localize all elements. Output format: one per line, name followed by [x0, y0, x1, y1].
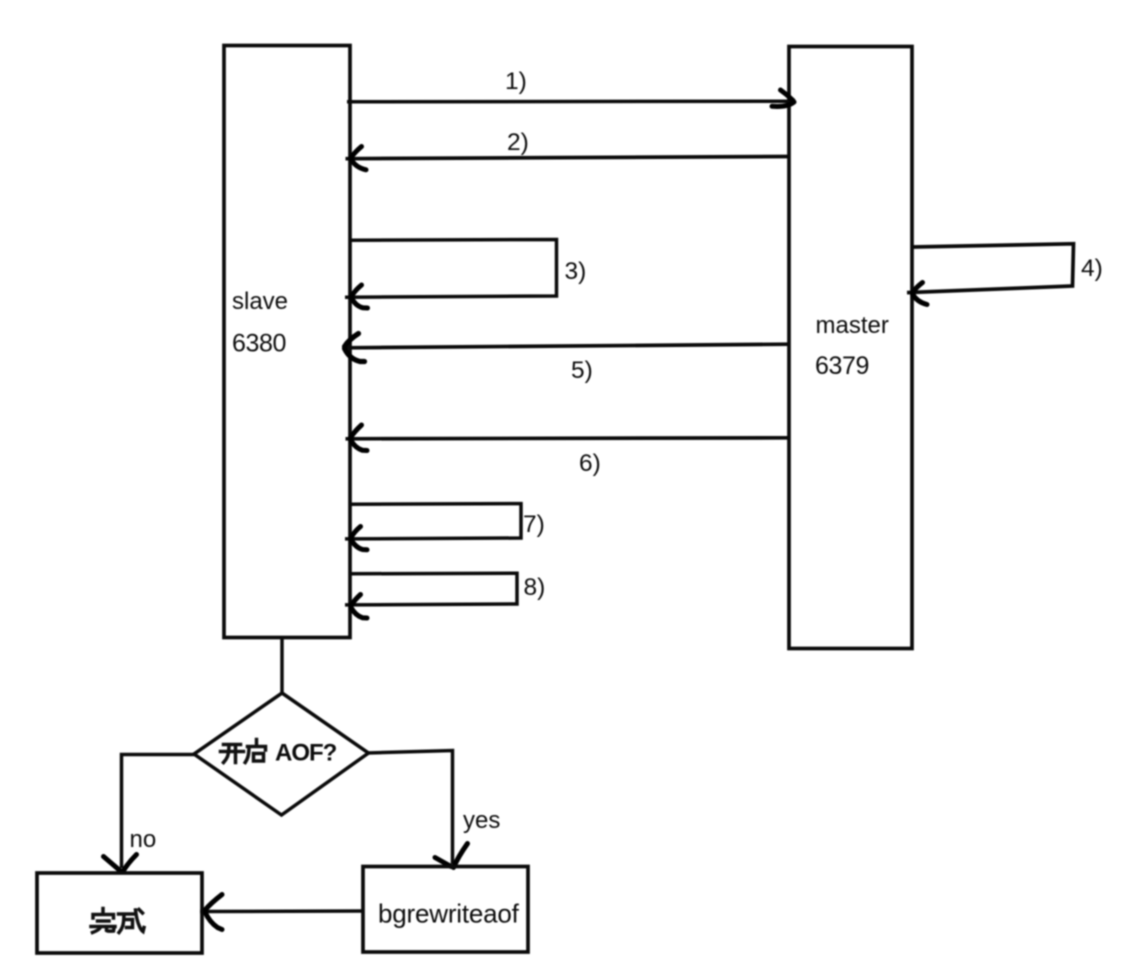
svg-text:4): 4) — [1081, 255, 1103, 282]
branch no wire (diamond left to done box) — [122, 755, 197, 869]
svg-text:7): 7) — [523, 511, 545, 538]
svg-text:master: master — [816, 312, 889, 339]
label 完 (glyph strokes) — [91, 909, 115, 933]
arrow 6 head (left-pointing) — [351, 425, 368, 451]
arrow head bgrewriteaof to done (left-pointing) — [205, 895, 222, 930]
branch no arrow head (down-pointing) — [104, 855, 137, 873]
svg-text:3): 3) — [565, 258, 587, 285]
svg-text:slave: slave — [232, 288, 288, 315]
box slave — [224, 46, 350, 638]
svg-text:5): 5) — [571, 357, 593, 384]
label 开 (glyph strokes) — [221, 745, 244, 763]
svg-text:2): 2) — [507, 129, 529, 156]
wire arrow 6 line (master to slave) — [346, 438, 790, 439]
svg-text:6379: 6379 — [815, 352, 869, 380]
loop 7 box (slave self-request) — [345, 504, 521, 539]
wire arrow 1 line (slave to master) — [347, 99, 795, 103]
branch yes arrow head (down-pointing) — [435, 844, 468, 868]
wire connector slave bottom to diamond — [280, 639, 284, 694]
label 启 (glyph strokes) — [245, 740, 265, 763]
loop 8 box (slave self-request) — [345, 573, 517, 605]
svg-text:6380: 6380 — [232, 330, 286, 358]
arrow 2 head (left-pointing) — [351, 147, 366, 170]
arrow 1 head (right-pointing) — [772, 90, 794, 107]
svg-text:no: no — [130, 826, 157, 853]
svg-text:AOF?: AOF? — [275, 740, 337, 767]
loop 8 arrow head — [351, 595, 367, 619]
branch yes wire (diamond right to bgrewriteaof box) — [367, 751, 453, 865]
loop 4 box (master self-request) — [907, 244, 1074, 293]
label 成 (glyph strokes) — [119, 910, 145, 933]
svg-text:1): 1) — [505, 68, 527, 95]
loop 7 arrow head — [351, 527, 367, 550]
loop 3 arrow head — [352, 285, 368, 308]
loop 4 arrow head — [913, 283, 928, 305]
wire arrow bgrewriteaof to done — [200, 909, 363, 913]
svg-text:yes: yes — [463, 807, 500, 834]
box bgrewriteaof — [363, 867, 528, 953]
wire arrow 2 line (master to slave) — [346, 157, 790, 159]
arrow 5 head (large left-pointing) — [345, 334, 365, 362]
wire arrow 5 line (master to slave) — [344, 344, 789, 348]
box done (完成) — [37, 873, 202, 953]
box master — [789, 47, 912, 649]
svg-text:6): 6) — [579, 450, 601, 477]
svg-text:8): 8) — [524, 574, 546, 601]
svg-text:bgrewriteaof: bgrewriteaof — [378, 899, 520, 929]
diamond decision 开启 AOF? — [194, 693, 369, 815]
loop 3 box (slave self-request) — [345, 240, 557, 298]
